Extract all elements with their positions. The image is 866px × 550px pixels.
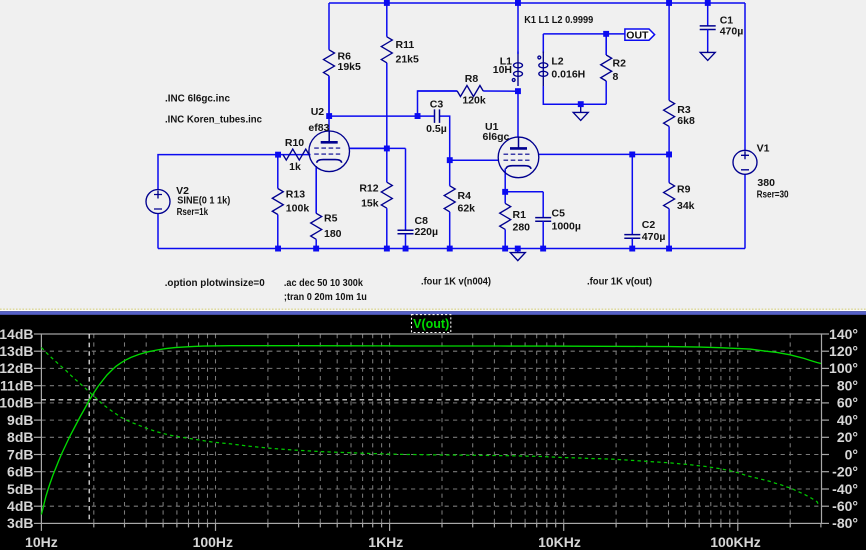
resistor R11 [381,3,419,65]
svg-text:0°: 0° [845,446,858,462]
svg-text:R2: R2 [613,58,627,70]
vacuum tube U1 [483,121,539,178]
wire: L1 bottom to U1 plate [517,91,519,137]
svg-text:OUT: OUT [626,29,649,41]
svg-text:R4: R4 [458,190,472,202]
svg-text:10Hz: 10Hz [25,534,58,550]
junction: rail / R12 [384,246,390,252]
svg-text:20°: 20° [837,429,858,445]
wire: U1 grid node to U1 grid [450,159,499,161]
resistor R13 [272,155,309,249]
svg-text:220µ: 220µ [415,226,439,238]
svg-text:120°: 120° [829,343,858,359]
junction: R8 / L1 / U1 plate [515,88,521,94]
voltage source V1 [733,150,757,174]
svg-text:.four 1K v(n004): .four 1K v(n004) [421,276,491,288]
svg-text:L2: L2 [551,56,563,68]
wire: L2 loop bottom [543,86,606,104]
svg-text:10dB: 10dB [0,395,34,411]
svg-text:4dB: 4dB [7,498,33,514]
inductor L1 [493,52,523,87]
svg-text:100Hz: 100Hz [193,534,233,550]
svg-text:.ac dec 50 10 300k: .ac dec 50 10 300k [284,277,363,289]
wire: U1 cathode to C5 [505,191,543,193]
junction: rail / R13 [275,246,281,252]
junction: L2 bottom / ground [578,101,584,107]
capacitor C1 [700,3,744,50]
svg-text:40°: 40° [837,412,858,428]
left dB axis labels [0,326,34,531]
svg-text:6l6gc: 6l6gc [483,131,510,143]
svg-text:1000µ: 1000µ [552,221,581,233]
svg-text:-40°: -40° [832,481,858,497]
V(out) phase curve (dashed green) [41,348,818,505]
plot border box [41,334,821,523]
wire: L2 top to OUT node [543,33,625,35]
schematic background [0,0,866,310]
svg-text:.INC 6l6gc.inc: .INC 6l6gc.inc [165,93,230,105]
title bar highlight line [0,310,866,311]
bottom frequency axis labels [25,534,761,550]
svg-text:380: 380 [757,177,775,189]
svg-text:.four 1K v(out): .four 1K v(out) [587,276,652,288]
junction: rail / C2 [629,246,635,252]
svg-text:R11: R11 [396,39,415,51]
wire: R2 top lead [605,34,607,55]
svg-text:470µ: 470µ [720,25,744,37]
capacitor C3 [418,99,447,136]
svg-text:15k: 15k [361,198,379,210]
svg-text:100°: 100° [829,360,858,376]
V(out) magnitude curve (solid green) [41,346,821,515]
voltage source V2 [146,190,170,214]
svg-text:8dB: 8dB [7,429,33,445]
plot title bar [0,311,866,315]
junction: U1 grid / R4 [447,157,453,163]
wire: bottom ground rail [158,248,745,250]
svg-text:80°: 80° [837,378,858,394]
svg-text:6dB: 6dB [7,464,33,480]
svg-text:;tran 0 20m 10m 1u: ;tran 0 20m 10m 1u [284,291,367,303]
svg-text:0.016H: 0.016H [551,69,585,81]
plot black background [0,315,866,550]
svg-text:-60°: -60° [832,498,858,514]
wire: C3 node up to R8 [418,91,458,116]
svg-text:100k: 100k [286,203,310,215]
svg-text:8: 8 [613,71,619,83]
svg-text:13dB: 13dB [0,343,34,359]
svg-text:470µ: 470µ [642,231,666,243]
cursor crosshair horizontal [41,399,821,401]
ground at bottom rail [510,253,525,261]
junction: OUT node / R2 [603,31,609,37]
junction: top rail / L1 [515,0,521,6]
resistor R9 [664,154,695,248]
svg-text:62k: 62k [458,203,476,215]
svg-text:60°: 60° [837,395,858,411]
legend box V(out) [412,315,451,333]
svg-text:R8: R8 [465,73,479,85]
right phase axis labels [829,326,858,531]
svg-text:.INC Koren_tubes.inc: .INC Koren_tubes.inc [165,114,262,126]
wire: top B+ rail [329,2,745,4]
svg-text:U2: U2 [311,106,325,118]
vacuum tube U2 [308,106,349,172]
wire: U2 plate node to C3 [329,115,418,117]
wire: top rail to V1 plus [744,3,746,150]
junction: rail / ground [515,246,521,252]
junction: U1 cathode / R1 / C5 [502,189,508,195]
resistor R5 [311,166,342,249]
svg-text:1KHz: 1KHz [368,534,403,550]
wire: U1 screen to R3/R9 node [539,153,669,155]
junction: rail / C8 [403,246,409,252]
svg-text:.option plotwinsize=0: .option plotwinsize=0 [165,277,265,289]
svg-text:V1: V1 [757,143,770,155]
svg-text:R9: R9 [677,184,691,196]
svg-text:12dB: 12dB [0,360,34,376]
svg-text:R1: R1 [513,209,527,221]
svg-text:-20°: -20° [832,464,858,480]
svg-text:280: 280 [513,222,531,234]
wire: R11 bottom to U2 screen node [386,63,388,149]
resistor R3 [664,3,695,154]
wire: L2 loop left top [542,34,544,53]
svg-text:180: 180 [324,228,342,240]
wire: R2 bottom lead [605,81,607,104]
svg-text:0.5µ: 0.5µ [426,123,447,135]
resistor R2 [601,34,626,83]
axis tick marks [34,334,829,531]
cursor crosshair vertical [88,334,90,523]
junction: rail / R5 [313,246,319,252]
junction: top rail / C1 [705,0,711,6]
resistor R4 [444,160,475,248]
junction: screen node / R3 / R9 [666,152,672,158]
svg-text:100KHz: 100KHz [710,534,761,550]
junction: rail / R4 [447,246,453,252]
wire: R8 to L1/U1 plate node [483,90,518,92]
svg-text:SINE(0 1 1k): SINE(0 1 1k) [177,194,230,206]
wire: U1 cathode down [504,169,506,192]
svg-text:7dB: 7dB [7,446,33,462]
svg-text:V(out): V(out) [413,317,449,331]
svg-text:11dB: 11dB [0,378,33,394]
vertical frequency gridlines [94,334,790,523]
svg-text:21k5: 21k5 [396,53,420,65]
svg-text:C3: C3 [430,99,444,111]
wire: C3 right to U1 grid node [440,116,450,160]
svg-text:Rser=1k: Rser=1k [177,206,209,218]
svg-text:R13: R13 [286,189,305,201]
svg-text:120k: 120k [462,95,486,107]
junction: rail / C5 [540,246,546,252]
junction: rail / R9 [666,246,672,252]
wire: V2 plus to input node [158,155,278,190]
resistor R8 [418,73,486,107]
svg-text:10KHz: 10KHz [538,534,581,550]
wire: V2 minus to ground rail [157,214,159,249]
svg-text:Rser=30: Rser=30 [757,188,789,200]
ground under L2/R2 [573,112,588,120]
resistor R10 [278,137,311,173]
wire: R6 bottom to U2 plate node [328,76,330,131]
pane separator dotted line [0,308,866,310]
svg-text:-80°: -80° [832,515,858,531]
inductor L2 [538,52,585,87]
wire: U2 grid to R10 [283,154,311,156]
svg-text:19k5: 19k5 [338,61,362,73]
svg-text:3dB: 3dB [7,515,33,531]
wire: U2 screen to C8 branch [349,147,406,149]
capacitor C5 [535,192,581,249]
wire: V1 minus to ground rail [744,174,746,248]
svg-text:140°: 140° [829,326,858,342]
OUT port flag [625,29,655,41]
ground under C1 [700,52,715,60]
svg-text:ef83: ef83 [308,122,329,134]
horizontal dB gridlines [41,351,821,506]
junction: U2 plate node [326,113,332,119]
svg-text:C5: C5 [552,208,566,220]
svg-text:R10: R10 [285,137,304,149]
junction: U2 screen / R11 / R12 [384,146,390,152]
junction: C3 node [415,113,421,119]
svg-text:6k8: 6k8 [677,115,695,127]
svg-text:10H: 10H [493,64,512,76]
junction: input node R10/R13 [275,152,281,158]
capacitor C8 [398,148,439,248]
svg-text:R5: R5 [324,213,338,225]
wire: top rail to L1 [517,3,519,54]
svg-text:5dB: 5dB [7,481,33,497]
svg-text:C2: C2 [642,219,656,231]
junction: screen node / C2 [629,152,635,158]
svg-text:R12: R12 [359,183,378,195]
svg-text:1k: 1k [289,161,301,173]
junction: rail / R1 [502,246,508,252]
capacitor C2 [624,154,665,248]
svg-text:14dB: 14dB [0,326,34,342]
svg-text:9dB: 9dB [7,412,33,428]
svg-text:K1 L1 L2 0.9999: K1 L1 L2 0.9999 [524,14,593,26]
wire: U2 cathode to R5 [315,166,317,213]
resistor R12 [359,148,392,248]
resistor R6 [324,3,362,116]
junction: top rail / R11 [384,0,390,6]
resistor R1 [500,192,530,249]
junction: top rail / R3 [666,0,672,6]
svg-text:34k: 34k [677,200,695,212]
